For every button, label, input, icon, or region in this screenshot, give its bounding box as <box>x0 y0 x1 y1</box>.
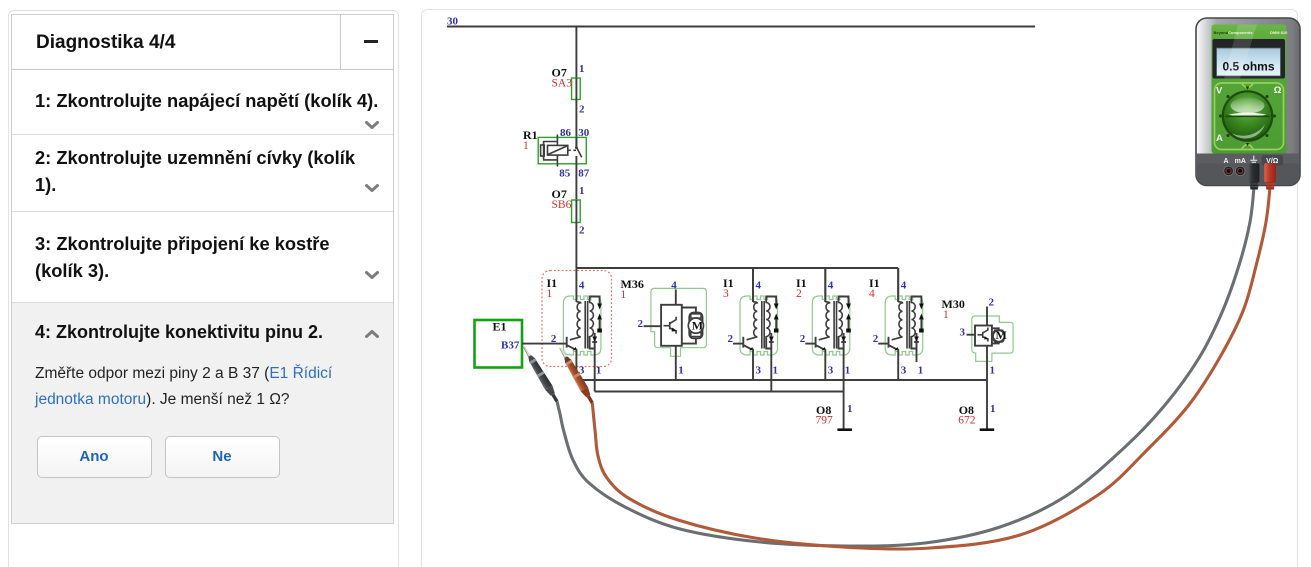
black probe on E1 pin B37 <box>520 344 560 403</box>
svg-text:30: 30 <box>578 127 590 139</box>
svg-text:3: 3 <box>723 288 729 300</box>
multimeter port labels <box>1262 155 1284 166</box>
red test lead plug <box>1264 163 1276 189</box>
svg-text:4: 4 <box>671 280 677 292</box>
wire: E1 pin B37 to coil I1/1 pin 2 <box>522 343 557 345</box>
motor unit M30 <box>942 297 1014 381</box>
ignition coil I1 1 <box>547 268 603 380</box>
svg-text:A: A <box>1216 133 1223 144</box>
svg-text:87: 87 <box>578 168 590 180</box>
svg-text:1: 1 <box>847 403 853 415</box>
svg-text:1: 1 <box>678 365 684 377</box>
black lead cable <box>557 190 1254 547</box>
svg-text:4: 4 <box>869 288 875 300</box>
schematic card border <box>422 10 1298 567</box>
control unit E1 <box>475 320 523 368</box>
wire: fuse SB6 down to coil supply bus <box>575 223 577 269</box>
wire: coil I1/1 pin 1 to ground bus <box>594 362 596 392</box>
svg-text:1: 1 <box>990 365 996 377</box>
wire: battery feed from net 30 down to fuse SA3 <box>575 27 577 79</box>
fuse O7 SB6 <box>552 185 586 237</box>
svg-text:2: 2 <box>989 297 995 309</box>
wire: coil I1/3 pin 1 to ground bus <box>770 362 772 392</box>
red probe on coil I1/1 pin 2 <box>557 346 596 406</box>
svg-text:SB6: SB6 <box>552 199 572 211</box>
svg-text:1: 1 <box>547 288 553 300</box>
svg-text:E1: E1 <box>493 320 507 334</box>
svg-text:2: 2 <box>579 225 585 237</box>
ignition coil I1 2 <box>796 268 851 380</box>
wire: bus to ground O8 797 <box>843 392 845 430</box>
relay R1 <box>523 127 590 180</box>
svg-text:B37: B37 <box>501 340 520 352</box>
svg-text:2: 2 <box>638 318 644 330</box>
svg-text:1: 1 <box>943 309 949 321</box>
multimeter <box>1196 18 1300 186</box>
coil ground bus wire (pin 3 side) <box>576 379 987 381</box>
motor unit M36 <box>621 277 707 380</box>
svg-text:1: 1 <box>621 289 627 301</box>
port jack mA <box>1235 166 1245 176</box>
svg-text:SA3: SA3 <box>552 78 573 90</box>
dial knob <box>1222 90 1274 142</box>
ground port symbol <box>1250 156 1257 165</box>
svg-text:M: M <box>692 318 703 332</box>
svg-text:A: A <box>1223 158 1228 165</box>
dial tick marks <box>1219 87 1276 147</box>
svg-text:672: 672 <box>958 415 976 427</box>
ground O8 797 <box>816 403 853 431</box>
svg-text:2: 2 <box>796 288 802 300</box>
wire: bus to ground O8 672 <box>986 380 988 430</box>
ground O8 672 <box>958 403 995 431</box>
svg-text:1: 1 <box>523 140 529 152</box>
svg-text:86: 86 <box>560 127 572 139</box>
wire: relay pin 87 to fuse SB6 <box>575 167 577 201</box>
highlight box around ignition coil I1 cylinder 1 <box>542 271 612 367</box>
black test lead plug <box>1249 163 1260 189</box>
svg-text:M: M <box>996 328 1007 342</box>
multimeter dial panel <box>1215 83 1284 150</box>
wire: fuse SA3 to relay R1 pin 30 <box>575 100 577 147</box>
ignition coil I1 3 <box>723 268 779 380</box>
svg-text:3: 3 <box>960 327 966 339</box>
svg-text:mA: mA <box>1235 158 1246 165</box>
coil supply bus wire <box>576 268 898 302</box>
svg-text:V: V <box>1216 86 1223 97</box>
svg-text:1: 1 <box>579 185 585 197</box>
net 30 bus wire <box>447 26 1035 28</box>
secondary ground bus wire (pin 1 side) <box>595 391 844 393</box>
svg-text:85: 85 <box>559 168 571 180</box>
wire: coil I1/2 pin 1 to ground bus <box>843 362 845 392</box>
fuse O7 SA3 <box>552 63 586 116</box>
multimeter LCD <box>1213 39 1286 79</box>
left diagnostic panel <box>8 10 399 567</box>
svg-text:1: 1 <box>579 63 585 75</box>
svg-text:Ω: Ω <box>1274 85 1282 96</box>
port jack A <box>1224 166 1234 176</box>
svg-text:2: 2 <box>579 104 585 116</box>
svg-text:797: 797 <box>816 415 834 427</box>
red lead cable <box>592 190 1270 550</box>
svg-text:1: 1 <box>990 403 996 415</box>
ignition coil I1 4 <box>869 268 924 380</box>
svg-text:DMM 810: DMM 810 <box>1270 30 1288 35</box>
